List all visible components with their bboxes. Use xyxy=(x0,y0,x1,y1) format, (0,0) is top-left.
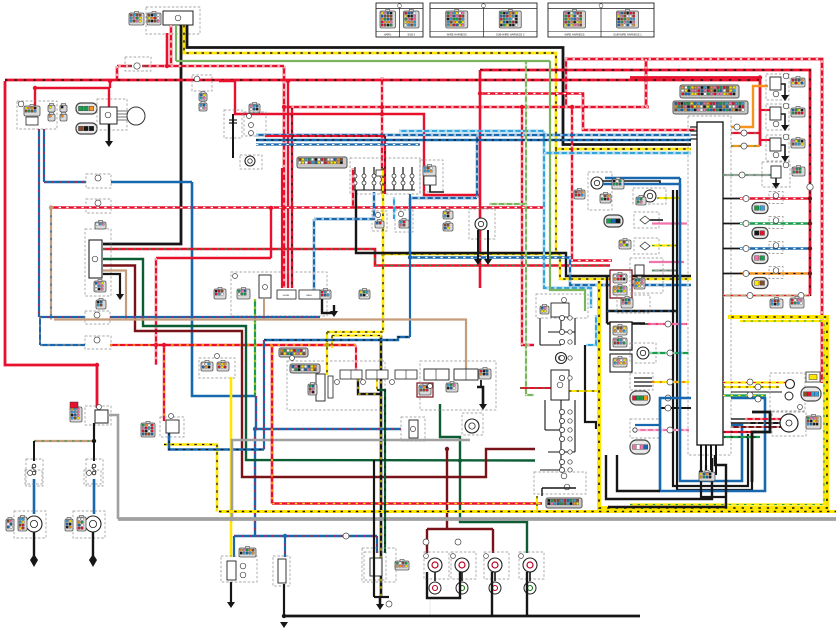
wire black web 10 xyxy=(548,451,575,453)
wire green sensor row xyxy=(650,352,689,354)
wire gray branch xyxy=(232,440,470,519)
wire yellow stub 537 xyxy=(536,496,538,512)
horn switch box xyxy=(277,290,296,299)
injector 4 label xyxy=(773,268,779,274)
wire black ECU ground run A xyxy=(701,460,727,497)
coil 2 connector xyxy=(791,108,805,117)
wire blue loop A xyxy=(660,398,765,491)
turn signal 2 connector B xyxy=(77,517,86,531)
wire black ground L A xyxy=(606,458,712,499)
junction blue 410-257 xyxy=(408,255,412,259)
legend box 1 xyxy=(376,3,423,37)
injector 2 label xyxy=(773,218,779,224)
wire injector 4 black stub xyxy=(723,273,740,275)
coil bottom 3 label xyxy=(484,554,489,559)
junction yellow 230-511 xyxy=(229,509,233,513)
wire pink pickup row xyxy=(638,429,689,431)
wire red main switch riser xyxy=(166,33,169,66)
wire blue bus mid xyxy=(410,258,691,286)
wire cyan bus y131 xyxy=(399,130,544,133)
wire red frame left drop xyxy=(645,59,648,107)
diode 3 xyxy=(559,339,564,344)
meter box maroon icon xyxy=(613,274,627,283)
ground joint connector xyxy=(699,472,715,481)
wire yellow bus mid xyxy=(383,254,691,279)
battery icon xyxy=(70,402,78,408)
label B coil drop 1 xyxy=(423,539,429,545)
legend box 2 xyxy=(430,3,537,37)
meter connector grid xyxy=(806,416,821,429)
ignition coil 1 enclosure xyxy=(766,74,789,100)
wire black left sw vertical xyxy=(480,380,482,387)
starter relay connector xyxy=(70,407,82,422)
wire blue/red y536 xyxy=(234,535,377,538)
meter bulb 2 xyxy=(785,392,793,400)
legend box 2 divider xyxy=(483,9,485,38)
wire yellow drop 332 xyxy=(331,336,333,349)
label A black row xyxy=(665,405,671,411)
wire black ECU ground 2 xyxy=(705,445,707,465)
fuse 6 symbol xyxy=(401,174,405,178)
passing switch box xyxy=(299,290,320,299)
meter label xyxy=(798,405,803,410)
diode 5 xyxy=(559,375,564,380)
diode unit icon B xyxy=(217,362,229,371)
wire red meter row xyxy=(745,418,781,420)
pickup enclosure xyxy=(630,419,661,438)
ground clutch switch xyxy=(479,404,487,410)
ECU box xyxy=(697,122,723,445)
diode 2 xyxy=(559,329,564,334)
ignition coil bottom 3 enclosure xyxy=(484,552,509,579)
wire black sensor row xyxy=(660,407,691,409)
label B coil drop 2 xyxy=(455,539,461,545)
relay unit connector 2 xyxy=(96,300,106,309)
wire red/white vertical 284 xyxy=(283,66,286,288)
dimmer sub 1 xyxy=(249,123,254,128)
oval connector sensors xyxy=(630,391,650,405)
wire black web 6 xyxy=(544,400,546,430)
wire red/white fuse feed xyxy=(117,25,171,66)
relay unit enclosure xyxy=(85,229,111,296)
wire sensor stub 2 xyxy=(634,381,652,383)
intake sensor 2 enclosure xyxy=(634,238,659,254)
wire blue y429 to component xyxy=(255,428,401,431)
turn signal 1 connector B xyxy=(18,517,27,531)
turn signal 1 bulb xyxy=(26,516,42,532)
wire fuse 1 drop xyxy=(354,167,356,190)
ground relay unit xyxy=(116,294,124,300)
svg-text:HARN.: HARN. xyxy=(384,32,392,36)
immobilizer icon2 xyxy=(613,338,627,347)
dimmer switch label xyxy=(263,285,268,290)
wire red main feed long xyxy=(5,78,758,81)
wire black web 5 xyxy=(574,318,576,345)
wire injector 2 black stub xyxy=(723,223,740,225)
wire injector 3 feed xyxy=(740,247,810,249)
wire yellow solid riser xyxy=(230,377,233,557)
wire black/yellow vertical 381 xyxy=(380,336,383,598)
relay 25 box xyxy=(166,420,179,433)
wire red/black meter row xyxy=(723,431,757,433)
turn signal 1 top label xyxy=(28,471,33,476)
wire red vertical 522 xyxy=(522,107,534,345)
starter switch box divider xyxy=(465,369,467,380)
wire gray main long xyxy=(118,517,836,521)
wire blue/red y317 b xyxy=(110,316,320,318)
wire black ECU ground run B xyxy=(705,465,707,478)
wire yellow horiz y332 xyxy=(327,331,383,333)
switch box 2 divider xyxy=(376,370,378,379)
crank sensor icon xyxy=(621,298,633,308)
wire red vertical 356 xyxy=(355,345,357,370)
diode unit enclosure xyxy=(199,358,235,378)
wire maroon coil drop 2 xyxy=(492,529,494,553)
main switch enclosure xyxy=(146,7,200,34)
legend icon 3 xyxy=(446,11,468,28)
wire blue/red vertical 264 xyxy=(263,340,265,450)
junction black sender xyxy=(282,614,286,618)
wire black relay cluster 1 xyxy=(542,487,576,489)
thermo sensor xyxy=(475,218,487,230)
ignition coil 3 box xyxy=(770,138,781,151)
wire black coil 2 ground xyxy=(781,114,785,125)
turn signal 1 enclosure xyxy=(14,511,46,538)
relay unit box xyxy=(89,240,102,278)
wire maroon coil feed xyxy=(446,449,448,529)
handlebar connector C xyxy=(320,290,331,299)
label A pink row 2 xyxy=(667,427,673,433)
diode 1 xyxy=(559,315,564,320)
relay unit label xyxy=(92,256,98,262)
wire pink intake row 1 xyxy=(652,222,687,224)
ignition coil 2 enclosure xyxy=(766,104,789,130)
speed sensor connector B xyxy=(600,194,611,203)
connector 21 enclosure xyxy=(85,336,111,349)
diode 7 xyxy=(559,418,564,423)
wire red/black vertical 292 xyxy=(291,107,293,288)
fuse 4 gap xyxy=(132,62,142,70)
ignition coil 1 label xyxy=(783,73,789,79)
junction red 382-114 xyxy=(380,112,384,116)
joint connector strip B xyxy=(290,364,320,373)
fuse box enclosure xyxy=(350,158,420,194)
wire blue vertical 256 xyxy=(255,396,257,429)
flasher connector xyxy=(540,306,549,314)
main switch connector A xyxy=(129,13,144,25)
pressure sensor 30 label xyxy=(783,162,789,168)
wire blue signal right xyxy=(93,479,96,514)
speed sensor connector A xyxy=(574,190,585,199)
junction red 97-345 xyxy=(95,363,99,367)
wire yellow coolant row xyxy=(657,197,681,199)
switch box 2 label xyxy=(361,380,366,385)
wire red/white horiz fuse-284 xyxy=(171,65,284,68)
wire gray/green sensor row xyxy=(723,174,771,176)
coolant sensor enclosure xyxy=(633,188,666,204)
legend icon 6 xyxy=(617,11,639,28)
ground coil 1 xyxy=(781,95,789,101)
horn enclosure xyxy=(240,155,262,169)
starter relay label xyxy=(557,382,563,388)
main switch connector B xyxy=(147,13,161,25)
coil bottom 2 label xyxy=(451,554,456,559)
wire black clutch link xyxy=(477,387,483,404)
wire ECU stub 2 xyxy=(690,130,697,132)
wire red coil stub 2 xyxy=(760,109,770,111)
capacitor enclosure xyxy=(224,110,242,138)
thermo enclosure xyxy=(469,209,495,239)
meter oval connector xyxy=(801,387,821,401)
wire injector 2 feed xyxy=(740,222,810,224)
junction yellow 383 xyxy=(381,252,385,256)
wire black shield xyxy=(752,412,770,482)
intake sensor 1 enclosure xyxy=(634,212,659,228)
stepper motor xyxy=(780,414,798,432)
wire black meter thin rows xyxy=(731,391,782,393)
injector 4 label box xyxy=(769,267,783,279)
wire injector 3 black stub xyxy=(723,248,740,250)
legend icon 4 xyxy=(499,11,521,28)
ignition coil 2 label xyxy=(783,103,789,109)
handlebar left label xyxy=(233,274,238,279)
wire black web 1 xyxy=(539,318,541,345)
dimmer enclosure xyxy=(244,112,266,136)
wire yellow/black riser 383 xyxy=(382,168,385,332)
wire red/white fuse to junction xyxy=(116,66,119,81)
wire black bottom vertical 381b xyxy=(380,460,382,597)
wire black frame-left vertical xyxy=(606,276,608,324)
label H orange xyxy=(734,124,740,130)
wire black bottom bus xyxy=(284,615,640,618)
wire maroon relay out xyxy=(103,266,535,478)
wire black meter row 2 xyxy=(748,422,781,424)
injector 2 xyxy=(752,228,768,239)
injector 1 xyxy=(752,203,768,214)
starter relay label2 xyxy=(97,405,102,410)
fuse 5 symbol xyxy=(392,174,396,178)
injector 2 label box xyxy=(769,217,783,229)
label A injector 2 xyxy=(743,221,749,227)
junction red 522-107 xyxy=(520,105,524,109)
cluster label xyxy=(290,356,295,361)
left switch label xyxy=(428,384,433,389)
wire yellow/black drop 377 xyxy=(376,379,378,390)
label C fuel xyxy=(343,533,349,539)
wire black vertical 617 xyxy=(616,455,618,472)
connector 17a enclosure xyxy=(372,211,387,231)
wire red/yellow vertical 272 xyxy=(271,345,274,504)
junction blue 285 xyxy=(283,534,287,538)
label A meter 3 xyxy=(747,392,753,398)
ignition coil 3 sub xyxy=(773,152,779,158)
wire yellow meter row 1 xyxy=(723,381,786,383)
coil 3 connector xyxy=(791,139,805,148)
wire brown/blue vertical 51b xyxy=(50,208,52,320)
wire injector 4 feed xyxy=(740,272,810,274)
wire brown handlebar drop xyxy=(263,299,265,320)
pickup pin xyxy=(633,428,637,432)
intake sensor 1 pin xyxy=(640,216,650,224)
fuse 7 symbol xyxy=(410,174,414,178)
meter box 3 icon xyxy=(613,358,627,367)
throttle sensor enclosure xyxy=(287,361,385,410)
wire black capacitor xyxy=(232,114,234,158)
wire red branch 235 xyxy=(219,81,480,195)
relay unit connector bottom xyxy=(94,281,106,292)
wire red headlight branch xyxy=(35,88,109,108)
wire black headlight ground xyxy=(108,124,110,141)
wire blue bus y140 xyxy=(256,139,691,142)
wire red y71 to injector rail xyxy=(480,70,810,296)
label B injector row 5 xyxy=(747,293,753,299)
fuse 18 enclosure xyxy=(86,459,103,486)
sidestand switch enclosure xyxy=(420,160,443,192)
wire black ECU ground 4 xyxy=(715,445,717,475)
switch box 2 xyxy=(366,370,388,379)
injector 3 label xyxy=(773,243,779,249)
wire blue fuel drop 1 xyxy=(233,536,235,557)
wire red riser 282 xyxy=(281,168,283,288)
connector pins 250 xyxy=(249,104,260,113)
wire black bottom vertical 374 xyxy=(373,460,375,597)
wire red/white vertical 156 xyxy=(155,258,157,365)
switch box 1 label xyxy=(335,380,340,385)
wire black web 11 xyxy=(540,469,561,471)
turn signal 2 connector A xyxy=(65,519,73,531)
wire black coil 4 link xyxy=(529,572,531,581)
fuel pump connector xyxy=(239,548,256,557)
diode unit icon A xyxy=(201,362,213,371)
wire black web 2 xyxy=(540,344,561,346)
label A pink row xyxy=(665,321,671,327)
coil bottom 4 label xyxy=(519,554,524,559)
fuse 1 symbol xyxy=(353,174,357,178)
wire blue sensor link xyxy=(679,178,681,184)
svg-text:SUB-WIRE HARNESS 2: SUB-WIRE HARNESS 2 xyxy=(496,32,525,36)
wire red/black vertical 385 xyxy=(384,136,386,194)
diode 9 xyxy=(559,436,564,441)
wire fuse 5 drop xyxy=(393,167,395,190)
ECU connector strip 2 xyxy=(673,101,748,114)
ground headlight xyxy=(105,141,113,147)
wire blue/tan y345 left xyxy=(40,344,85,346)
svg-text:WIRE HARNESS: WIRE HARNESS xyxy=(447,32,467,36)
ground handlebar switch xyxy=(330,311,338,317)
wire pink intake row 3 xyxy=(649,261,684,263)
wire blue relay 25 out xyxy=(169,433,264,450)
speed sensor xyxy=(591,177,603,189)
turn signal 1 label box xyxy=(25,470,42,484)
wire red/green long y249 xyxy=(103,249,610,266)
junction ECU ground b xyxy=(702,475,706,479)
relay 25 label xyxy=(169,414,174,419)
connector 20 enclosure xyxy=(85,311,110,324)
label H coil row xyxy=(741,130,747,136)
spark plug 3 xyxy=(489,582,501,594)
wire black sidestand xyxy=(430,176,444,192)
wire black vertical 585 xyxy=(585,345,596,429)
component 24 symbol xyxy=(410,426,415,431)
fuel sender enclosure xyxy=(273,556,290,586)
wire black ground L C xyxy=(608,455,726,507)
wire black vertical 606 xyxy=(605,455,607,472)
wire blue y340 xyxy=(264,337,410,340)
sub harness conn A xyxy=(770,299,783,308)
diode 4 xyxy=(559,355,564,360)
injector 1 label xyxy=(773,193,779,199)
ground thermo B xyxy=(484,259,492,265)
component 24 enclosure xyxy=(401,417,425,441)
wire red left edge drop xyxy=(5,81,97,408)
ECU connector strip 1 xyxy=(680,85,739,98)
wire black web 9 xyxy=(574,400,576,452)
relay 25 enclosure xyxy=(160,417,184,437)
rear connector icon xyxy=(395,561,409,570)
radiator relay enclosure xyxy=(534,472,586,494)
wire red coil row 2 xyxy=(731,132,760,134)
junction injector 3 rail xyxy=(808,246,812,250)
legend icon 5 xyxy=(564,11,586,28)
pin red B xyxy=(60,105,67,112)
LCD fill xyxy=(809,375,817,380)
wire red/black y136 xyxy=(292,135,385,137)
wire black web 4 xyxy=(548,331,575,333)
speed sensor connector C xyxy=(612,179,624,189)
relay 31 b xyxy=(564,484,570,490)
label A injector 1 xyxy=(743,196,749,202)
wire black bus y323 xyxy=(607,322,645,324)
injector 4 xyxy=(752,278,768,289)
starter relay box2 xyxy=(95,410,108,423)
switch box 3 xyxy=(395,370,417,379)
junction red 164 xyxy=(162,343,166,347)
yellow frame left+bottom xyxy=(599,281,827,508)
rear brake switch box xyxy=(417,383,433,397)
oval connector 3pin xyxy=(604,215,623,227)
wire tan long y319 xyxy=(54,320,466,370)
wire black signal 1 ground xyxy=(33,532,35,560)
capacitor box xyxy=(224,112,242,134)
relay 25 connector xyxy=(141,423,155,437)
rear sensor enclosure xyxy=(364,552,386,580)
handlebar switch left enclosure xyxy=(231,272,327,316)
crank sensor enclosure xyxy=(617,295,650,313)
ground fuel sender xyxy=(280,622,288,628)
TPS box 2 xyxy=(328,376,333,398)
wire black coil ground bus A xyxy=(427,572,460,598)
wire blue vertical 314 xyxy=(313,219,315,292)
wire red riser 110 xyxy=(109,81,111,88)
wire black/yellow handlebar drop xyxy=(358,379,381,394)
ground turn signal 2 xyxy=(89,560,97,567)
spark plug 4 xyxy=(524,582,536,594)
joint connector strip A xyxy=(279,348,308,357)
clutch switch enclosure xyxy=(462,413,483,435)
connector 20 symbol xyxy=(94,312,100,318)
legend box 3 header xyxy=(548,8,654,10)
label A blue row xyxy=(665,395,671,401)
cylinder sensor box xyxy=(635,265,644,275)
flasher relay label xyxy=(562,298,567,303)
upper cluster icon A xyxy=(634,278,645,289)
ignition coil bottom 1 enclosure xyxy=(424,552,449,579)
wire black vertical pair B xyxy=(677,190,752,490)
wire black bus drop xyxy=(429,598,431,616)
meter box maroon xyxy=(610,270,632,298)
fuse 4 symbol xyxy=(134,63,140,69)
wire yellow/green intake row 2 xyxy=(652,244,677,246)
